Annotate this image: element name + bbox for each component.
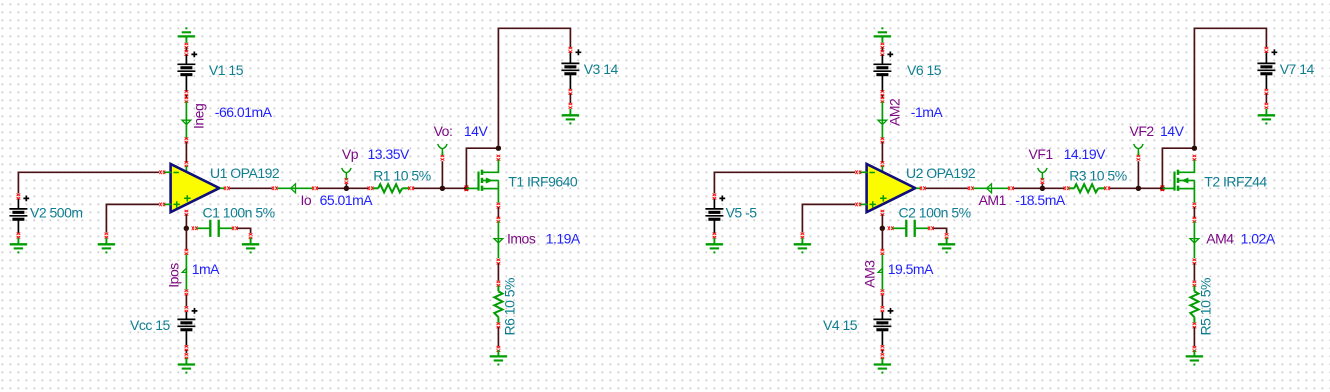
wire supply rail to V3 bbox=[498, 28, 570, 146]
svg-text:1.02A: 1.02A bbox=[1241, 231, 1276, 247]
battery V2 500m bbox=[17, 194, 21, 196]
junction node (gate) bbox=[1160, 186, 1165, 191]
svg-text:V1 15: V1 15 bbox=[209, 62, 244, 78]
op-amp non-inverting input pin bbox=[159, 203, 161, 207]
wire AM3 to V4 bbox=[881, 295, 883, 307]
voltage probe VF1 bbox=[1041, 184, 1043, 187]
ammeter AM2 bbox=[881, 90, 885, 92]
ammeter Imos bbox=[497, 221, 499, 258]
wire node to resistor R1 bbox=[348, 187, 368, 189]
wire non-inverting input to ground bbox=[106, 204, 159, 232]
svg-text:V2 500m: V2 500m bbox=[30, 204, 83, 220]
wire Vcc to ground bbox=[185, 345, 189, 347]
wire V3 to ground bbox=[569, 89, 573, 91]
wire node to gate pin bbox=[1141, 187, 1161, 189]
battery V4 15 bbox=[881, 306, 885, 308]
svg-text:C1 100n 5%: C1 100n 5% bbox=[203, 205, 275, 221]
ammeter AM3 bbox=[881, 249, 885, 251]
svg-text:R5 10 5%: R5 10 5% bbox=[1198, 278, 1214, 336]
voltage probe VF2 bbox=[1137, 161, 1139, 186]
svg-text:-1mA: -1mA bbox=[911, 104, 944, 120]
svg-text:T1 IRF9640: T1 IRF9640 bbox=[508, 173, 578, 189]
wire node to ammeter Ipos bbox=[185, 228, 187, 249]
svg-text:V7 14: V7 14 bbox=[1280, 61, 1315, 77]
wire Io to node Vp bbox=[318, 187, 345, 189]
ground (V2) bbox=[17, 233, 21, 235]
wire R6 to ground bbox=[497, 327, 499, 346]
junction node (drain / supply rail) bbox=[496, 146, 501, 151]
ground (non-inverting input) bbox=[105, 233, 109, 235]
op-amp output pin bbox=[220, 187, 224, 189]
svg-text:-66.01mA: -66.01mA bbox=[215, 104, 273, 120]
svg-text:VF2: VF2 bbox=[1130, 123, 1155, 139]
ground (C2) bbox=[945, 233, 949, 235]
op-amp U2 bbox=[867, 164, 916, 212]
wire V4 to ground bbox=[881, 345, 885, 347]
wire op-amp output to ammeter Io bbox=[229, 187, 272, 189]
wire Ipos to Vcc bbox=[185, 295, 187, 307]
wire node to ammeter AM3 bbox=[881, 228, 883, 249]
ground (C1) bbox=[249, 233, 253, 235]
wire R3 to node VF2 bbox=[1110, 187, 1137, 189]
wire Ineg to op-amp V+ pin bbox=[185, 138, 189, 140]
battery V5 -5 bbox=[713, 194, 717, 196]
svg-text:1.19A: 1.19A bbox=[546, 231, 581, 247]
svg-text:R3 10 5%: R3 10 5% bbox=[1069, 168, 1127, 184]
svg-text:65.01mA: 65.01mA bbox=[320, 192, 374, 208]
svg-text:T2 IRFZ44: T2 IRFZ44 bbox=[1204, 173, 1267, 189]
op-amp inverting input pin bbox=[855, 170, 857, 174]
svg-text:Ipos: Ipos bbox=[166, 263, 182, 288]
resistor R5 10 5% bbox=[1193, 281, 1197, 283]
voltage probe Vo: bbox=[441, 161, 443, 186]
wire MOSFET source to ammeter AM4 bbox=[1193, 203, 1197, 205]
ammeter AM1 bbox=[968, 186, 970, 190]
ammeter Io bbox=[272, 186, 274, 190]
ground (V3) bbox=[569, 109, 571, 115]
op-amp inverting input pin bbox=[159, 170, 161, 174]
ground (R5) bbox=[1193, 346, 1197, 348]
svg-text:14V: 14V bbox=[1160, 123, 1185, 139]
junction node (VF2) bbox=[1136, 186, 1141, 191]
wire non-inverting input to ground bbox=[802, 204, 855, 232]
battery V6 15 bbox=[881, 55, 883, 65]
junction node (V- / capacitor) bbox=[880, 226, 885, 231]
wire AM4 to resistor R5 bbox=[1193, 263, 1195, 281]
svg-text:U2 OPA192: U2 OPA192 bbox=[906, 165, 976, 181]
battery Vcc 15 bbox=[185, 306, 189, 308]
wire AM1 to node VF1 bbox=[1014, 187, 1041, 189]
ground (non-inverting input) bbox=[801, 233, 805, 235]
svg-text:Io: Io bbox=[301, 192, 312, 208]
svg-text:19.5mA: 19.5mA bbox=[888, 261, 934, 277]
op-amp U1 bbox=[171, 164, 220, 212]
svg-text:14.19V: 14.19V bbox=[1064, 146, 1107, 162]
junction node (VF1) bbox=[1040, 186, 1045, 191]
wire V7 to ground bbox=[1265, 89, 1269, 91]
ground (top, V1) bbox=[185, 36, 187, 42]
wire MOSFET source to ammeter Imos bbox=[497, 203, 501, 205]
svg-text:14V: 14V bbox=[464, 123, 489, 139]
svg-text:Vcc 15: Vcc 15 bbox=[130, 317, 171, 333]
MOSFET T1 IRF9640 bbox=[467, 187, 479, 189]
capacitor C2 100n 5% bbox=[888, 226, 890, 230]
wire R5 to ground bbox=[1193, 327, 1195, 346]
svg-text:V4 15: V4 15 bbox=[823, 317, 858, 333]
resistor R6 10 5% bbox=[497, 281, 501, 283]
svg-text:VF1: VF1 bbox=[1029, 146, 1054, 162]
resistor R3 10 5% bbox=[1064, 186, 1066, 190]
wire C1 to ground bbox=[237, 228, 250, 233]
junction node (V- / capacitor) bbox=[184, 226, 189, 231]
op-amp V- pin bbox=[881, 210, 885, 212]
junction node (Vo:) bbox=[440, 186, 445, 191]
wire top-ground to V1 bbox=[185, 43, 189, 45]
voltage probe Vp bbox=[345, 184, 347, 187]
wire R1 to node Vo: bbox=[414, 187, 441, 189]
op-amp non-inverting input pin bbox=[855, 203, 857, 207]
wire inverting input to V5 bbox=[714, 172, 855, 193]
svg-text:V5 -5: V5 -5 bbox=[726, 204, 758, 220]
wire C2 to ground bbox=[933, 228, 946, 233]
wire inverting input to V2 bbox=[18, 172, 159, 193]
wire supply rail to V7 bbox=[1194, 28, 1266, 146]
wire op-amp output to ammeter AM1 bbox=[925, 187, 968, 189]
ammeter Ineg bbox=[185, 90, 189, 92]
ammeter AM4 bbox=[1193, 221, 1195, 258]
svg-text:Vo:: Vo: bbox=[434, 123, 453, 139]
svg-text:U1 OPA192: U1 OPA192 bbox=[210, 165, 280, 181]
svg-text:AM4: AM4 bbox=[1206, 231, 1234, 247]
ground (V7) bbox=[1265, 109, 1267, 115]
svg-text:1mA: 1mA bbox=[192, 261, 220, 277]
junction node (drain / supply rail) bbox=[1192, 146, 1197, 151]
svg-text:C2 100n 5%: C2 100n 5% bbox=[899, 205, 971, 221]
svg-text:Ineg: Ineg bbox=[190, 104, 206, 129]
svg-text:AM1: AM1 bbox=[979, 192, 1007, 208]
svg-text:AM2: AM2 bbox=[886, 98, 902, 126]
wire op-amp V- to node bbox=[185, 214, 187, 228]
ground (top, V6) bbox=[881, 36, 883, 42]
svg-text:13.35V: 13.35V bbox=[368, 146, 411, 162]
svg-text:V6 15: V6 15 bbox=[907, 62, 942, 78]
battery V3 14 bbox=[569, 47, 573, 49]
wire node to gate pin bbox=[445, 187, 465, 189]
ammeter Ipos bbox=[185, 249, 189, 251]
wire gate node loop to drain node bbox=[1162, 148, 1192, 186]
battery V1 15 bbox=[185, 55, 187, 65]
wire gate node loop to drain node bbox=[466, 148, 496, 186]
wire AM2 to op-amp V+ pin bbox=[881, 138, 885, 140]
wire node to resistor R3 bbox=[1044, 187, 1064, 189]
capacitor C1 100n 5% bbox=[192, 226, 194, 230]
junction node (gate) bbox=[464, 186, 469, 191]
wire drain pin to node bbox=[497, 155, 501, 157]
junction node (Vp) bbox=[344, 186, 349, 191]
svg-text:R6 10 5%: R6 10 5% bbox=[502, 278, 518, 336]
wire drain pin to node bbox=[1193, 155, 1197, 157]
wire top-ground to V6 bbox=[881, 43, 885, 45]
ground (V5) bbox=[713, 233, 717, 235]
resistor R1 10 5% bbox=[368, 186, 370, 190]
svg-text:AM3: AM3 bbox=[862, 260, 878, 288]
ground (V4) bbox=[881, 358, 883, 364]
battery V7 14 bbox=[1265, 47, 1269, 49]
op-amp output pin bbox=[916, 187, 920, 189]
wire op-amp V- to node bbox=[881, 214, 883, 228]
svg-text:Vp: Vp bbox=[342, 146, 359, 162]
op-amp V- pin bbox=[185, 210, 189, 212]
ground (R6) bbox=[497, 346, 501, 348]
wire Imos to resistor R6 bbox=[497, 263, 499, 281]
ground (Vcc) bbox=[185, 358, 187, 364]
svg-text:Imos: Imos bbox=[507, 231, 536, 247]
svg-text:-18.5mA: -18.5mA bbox=[1015, 192, 1066, 208]
svg-text:V3 14: V3 14 bbox=[584, 61, 619, 77]
MOSFET T2 IRFZ44 bbox=[1163, 187, 1175, 189]
svg-text:R1 10 5%: R1 10 5% bbox=[373, 168, 431, 184]
